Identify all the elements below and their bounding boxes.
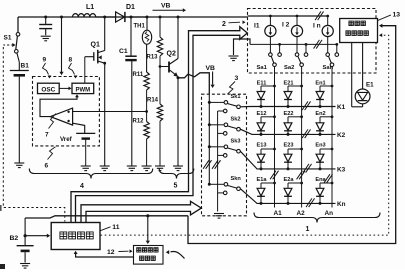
wire driver output right [362,43,364,90]
svg-text:R13: R13 [147,55,159,61]
label 9 callout [43,57,52,79]
label 13 callout [378,12,400,21]
wire Q1 source to ground [104,63,106,165]
label I2 [282,22,290,29]
svg-text:D1: D1 [126,4,135,11]
svg-text:K2: K2 [337,132,346,139]
wire row rail Kn [240,189,335,204]
wire receiver output to controller [74,251,134,257]
slash break K2 rail [302,129,310,138]
label Ena [315,177,326,183]
switch Sa1 [269,43,282,73]
svg-text:TH1: TH1 [134,24,146,30]
svg-text:I 2: I 2 [282,22,290,29]
wire R11 to R12 [146,90,148,122]
svg-text:San: San [323,65,334,71]
svg-text:2: 2 [222,21,226,28]
label K1 [337,104,346,111]
LED E12 [257,115,276,135]
label E1a [257,177,268,183]
label 3 callout [228,75,239,94]
switch S1 [14,17,19,62]
transistor Q1 [85,50,105,64]
slash break on VB rail in box2 [315,11,323,20]
wire Sk ground bus [217,111,219,212]
svg-text:En2: En2 [315,111,325,117]
label Sa2 [284,65,294,71]
dashed box 3 (row select) [202,94,247,216]
dotted control line controller to driver [101,33,389,235]
label An [325,210,334,217]
label B1 [21,63,30,70]
block indicator-driver (box 13) [340,19,378,43]
label A1 [274,210,283,217]
ground left of box2 [229,56,239,61]
label En3 [315,143,325,149]
resistor R13 [157,17,162,56]
ground below C1 [127,166,137,171]
node power rail receiver junction [146,214,149,217]
slash break on Sk buses [203,160,220,169]
ground below Q1 source [100,166,110,171]
label 7 callout [45,114,56,139]
svg-text:R14: R14 [147,98,159,104]
svg-text:3: 3 [235,75,239,82]
label In [313,23,321,30]
reference source Vref [76,133,95,165]
svg-text:B2: B2 [10,235,19,242]
label K3 [337,167,346,174]
switch Sk3 [208,145,241,157]
svg-text:C1: C1 [119,48,128,55]
inductor L1 [73,14,105,17]
svg-text:E13: E13 [257,143,267,149]
slash break on Sa rail [314,40,322,49]
svg-text:E11: E11 [257,80,267,86]
label I1 [254,23,260,30]
label En1 [315,80,325,86]
LED E2a [284,182,303,205]
block remote receiver (12) [134,246,164,265]
capacitor C1 [125,17,136,166]
wire driver output left [351,43,353,107]
LED En3 [316,148,333,171]
svg-text:Sa1: Sa1 [257,65,268,71]
svg-text:E2a: E2a [284,177,295,183]
ground below B1 [14,163,24,168]
node Q1 source junction [103,62,106,65]
svg-text:A1: A1 [274,210,283,217]
label A2 [297,210,306,217]
label TH1 [134,24,146,30]
label R14 [147,98,159,104]
svg-text:I1: I1 [254,23,260,30]
slash break column An [324,174,332,183]
svg-text:VB: VB [161,3,171,10]
LED En1 [316,85,333,108]
node In top junction [326,15,329,18]
svg-text:B1: B1 [21,63,30,70]
LED E23 [284,148,303,171]
wire comparator inverting input [73,111,80,113]
switch Skn [208,183,241,195]
label E1 [366,82,374,89]
label E2a [284,177,295,183]
svg-text:En3: En3 [315,143,325,149]
node rail-osc feed junction [60,16,63,19]
LED E11 [257,85,276,108]
brace group 5 [159,169,194,179]
wire rail to OSC/PWM supply with arrow [59,17,63,75]
capacitor input filter [39,17,52,35]
svg-text:E12: E12 [257,111,267,117]
wire column feed line A3 [331,73,333,208]
svg-text:L1: L1 [86,4,94,11]
label 12 callout [107,249,133,256]
label Q1 [91,42,100,49]
op-amp comparator U-cmp [50,108,72,125]
slash break column A2 [297,171,305,180]
LED E21 [284,85,303,108]
svg-text:Sa2: Sa2 [284,65,294,71]
LED E13 [257,148,276,171]
label E22 [284,111,294,117]
label Sa1 [257,65,268,71]
wire comparator output to PWM [40,94,79,116]
battery B1 [10,62,29,163]
label Sk1 [231,94,241,100]
thermistor TH1 [142,17,151,72]
wire Sk common bus [208,94,210,184]
svg-text:E1a: E1a [257,177,268,183]
LED Ena [316,182,333,205]
svg-text:I n: I n [313,23,321,30]
svg-text:Kn: Kn [337,201,346,208]
dashed box 2 (source select) [248,9,377,74]
current source I1 [265,16,276,44]
svg-text:PWM: PWM [75,88,90,94]
svg-text:K3: K3 [337,167,346,174]
wire row rail K3 [240,151,335,169]
label S1 [4,35,12,42]
label E21 [284,80,294,86]
scan artifact corner [0,205,5,269]
svg-text:An: An [325,210,334,217]
svg-text:13: 13 [393,12,401,19]
block OSC U-osc [38,83,60,93]
ground below Q2 [173,166,183,171]
svg-text:4: 4 [80,183,84,190]
label E13 [257,143,267,149]
slash break column A1 [270,171,278,180]
svg-text:Sk2: Sk2 [231,117,241,123]
slash break Kn rail [306,198,314,207]
wire feedback to comparator [80,111,147,113]
dashed box 6 (regulator control) [33,77,100,146]
svg-text:12: 12 [107,249,115,256]
label K2 [337,132,346,139]
label R12 [133,119,145,125]
svg-text:Skn: Skn [231,176,242,182]
svg-text:Q1: Q1 [91,42,100,49]
switch San [326,43,339,73]
remote signal arrow [166,250,185,258]
label 5 [174,183,178,190]
brace group 1 [254,213,380,223]
node rail-TH1 junction [146,16,149,19]
wire R12 to ground [146,139,148,166]
ground below input capacitor [41,36,51,41]
label 1 [306,226,310,233]
svg-text:E23: E23 [284,143,294,149]
wire B2 to controller with arrow [25,234,50,238]
node Q2 emitter junction [177,76,180,79]
svg-text:R11: R11 [133,72,144,78]
wire power to receiver with arrow [146,216,150,244]
label E12 [257,111,267,117]
diode D1 [105,12,147,22]
node rail-Q1 drain junction [103,16,106,19]
label 2 callout [222,20,246,28]
label B2 [10,235,19,242]
wire B2 power to driver (solid feed) [188,24,396,244]
svg-text:Vref: Vref [60,136,73,143]
svg-text:9: 9 [43,57,47,64]
node Q2 base divider junction [159,65,162,68]
ground below B2 [20,264,30,269]
svg-text:Sk3: Sk3 [231,139,241,145]
label En2 [315,111,325,117]
wire box2 rail to external ground [234,39,251,55]
wire Q2 collector to rail [177,17,179,59]
svg-text:A2: A2 [297,210,306,217]
resistor R11 [144,72,149,90]
wire Q2 emitter to Sk box (VB feed) [178,73,209,94]
label 6 callout [45,147,56,170]
label E11 [257,80,267,86]
svg-text:6: 6 [45,163,49,170]
label San [323,65,334,71]
svg-text:E22: E22 [284,111,294,117]
svg-text:En1: En1 [315,80,325,86]
label D1 [126,4,135,11]
ground below R14 [155,166,165,171]
label 4 [80,183,84,190]
ground below R12 [142,166,152,171]
svg-text:S1: S1 [4,35,12,42]
block PWM U-pwm [72,83,94,93]
node rail-C1 junction [130,16,133,19]
node I1 top junction [269,15,272,18]
ground below Vref [81,166,91,171]
svg-text:8: 8 [69,57,73,64]
wire row rail K2 [240,129,335,134]
wire OSC to PWM with arrow [59,87,71,91]
svg-text:E21: E21 [284,80,294,86]
svg-text:Sk1: Sk1 [231,94,241,100]
wire base node to Q2 [160,66,168,68]
label Skn [231,176,242,182]
wire R14 to ground [159,121,161,166]
svg-text:7: 7 [45,132,49,139]
label R13 [147,55,159,61]
current source I2 [291,16,302,44]
wire comparator ref input [73,123,85,133]
bus arrow controller to Sk box [81,201,201,223]
transistor Q2 [169,59,178,77]
slash break K3 rail [303,164,311,173]
wire B2 power rail to right [25,216,188,218]
svg-text:OSC: OSC [41,87,55,94]
label E23 [284,143,294,149]
label VB supply arrow to Sk bus [206,65,216,88]
node rail-cap junction [44,16,47,19]
wire top VB rail [18,16,328,17]
label Q2 [167,51,176,58]
svg-text:E1: E1 [366,82,374,89]
label Sk2 [231,117,241,123]
label C1 [119,48,128,55]
LED E22 [284,115,303,135]
LED En2 [316,115,333,135]
svg-text:1: 1 [306,226,310,233]
svg-text:R12: R12 [133,119,145,125]
label VB with arrow (supply) [153,3,187,13]
svg-text:VB: VB [206,65,216,72]
lamp E1 [352,89,370,107]
resistor R12 [144,122,149,140]
node rail-R13 junction [159,16,162,19]
label R11 [133,72,144,78]
wire Q2 emitter to ground [177,78,179,166]
label Kn [337,201,346,208]
label L1 [86,4,94,11]
brace group 4 [29,169,152,179]
wire column feed line A2 [301,73,303,208]
bus arrow controller to Sa box [71,27,247,223]
label 11 callout [100,224,120,231]
battery B2 [17,218,34,263]
block controller MCU (11) [51,223,100,250]
ground below Sk box [214,214,224,219]
dashed control line from S1 to controller [3,43,65,221]
svg-text:K1: K1 [337,104,346,111]
current source In [322,16,333,44]
svg-text:11: 11 [112,224,119,231]
wire row rail K1 [240,106,335,108]
wire PWM output to Q1 gate [84,57,86,83]
label Sk3 [231,139,241,145]
node rail-Q2 collector junction [177,16,180,19]
slash break K1 rail [302,101,310,110]
svg-text:5: 5 [174,183,178,190]
svg-text:Q2: Q2 [167,51,176,58]
wire column feed line A1 [274,73,276,208]
label 8 callout [69,57,78,79]
label Vref [60,136,73,143]
node feedback divider junction [145,110,148,113]
switch Sk2 [208,123,241,135]
wire R13 to base node [159,56,161,67]
wire Sa common rail [250,43,337,45]
wire Q1 drain [98,17,105,53]
switch Sk1 [208,101,241,113]
node I2 top junction [296,15,299,18]
switch Sa2 [295,43,308,73]
LED E1a [257,182,276,205]
resistor R14 [157,67,162,122]
